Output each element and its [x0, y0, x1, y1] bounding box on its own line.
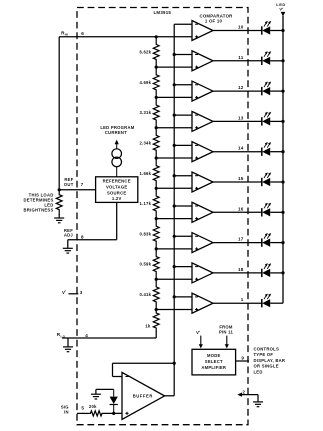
svg-text:DISPLAY, BAR: DISPLAY, BAR — [254, 358, 286, 363]
LED 3 — [262, 82, 271, 96]
node RHI pin 6 — [61, 31, 84, 37]
current source LED program — [112, 140, 122, 177]
svg-text:7: 7 — [81, 182, 84, 187]
wire signal branch to comparator 3 - input — [174, 84, 192, 86]
svg-text:0.83k: 0.83k — [139, 231, 151, 236]
pin 2 label — [242, 389, 245, 394]
comparator 6 (output pin 15) — [192, 172, 213, 192]
wire comparator 10 output to LED pin 1 — [213, 302, 262, 304]
wire buffer output — [165, 395, 175, 397]
svg-text:MODE: MODE — [207, 353, 221, 358]
wire divider bottom to RLO row — [62, 331, 156, 338]
wire comparator 9 output to LED pin 18 — [213, 272, 262, 274]
svg-text:12: 12 — [238, 85, 244, 90]
pin 10 label — [238, 25, 244, 30]
LED 5 — [262, 142, 271, 156]
resistor divider 6.62k — [139, 37, 159, 67]
svg-text:+: + — [198, 329, 200, 333]
wire tap 10 to comparator 10 + input — [156, 309, 192, 311]
wire signal branch to comparator 7 - input — [174, 205, 192, 207]
LED 6 — [262, 172, 271, 186]
wire comparator 5 output to LED pin 14 — [213, 151, 262, 153]
op-amp buffer — [122, 372, 165, 419]
wire comparator 4 output to LED pin 13 — [213, 120, 262, 122]
LED 7 — [262, 203, 271, 217]
comparator 3 (output pin 12) — [192, 81, 213, 101]
junction signal line row 9 — [173, 265, 176, 268]
wire LED 6 anode to V+ rail — [270, 181, 283, 183]
pin 11 label — [238, 55, 244, 60]
pin 15 label — [238, 176, 244, 181]
svg-text:0.41k: 0.41k — [139, 292, 151, 297]
comparator 4 (output pin 13) — [192, 111, 213, 131]
resistor divider 1.66k — [139, 158, 159, 188]
svg-text:6.62k: 6.62k — [139, 50, 151, 55]
svg-text:11: 11 — [238, 55, 244, 60]
wire signal branch to comparator 10 - input — [174, 296, 192, 298]
comparator 9 (output pin 18) — [192, 263, 213, 283]
svg-text:9: 9 — [241, 356, 244, 361]
svg-text:+: + — [282, 6, 284, 10]
LED 4 — [262, 112, 271, 126]
resistor divider 0.41k — [139, 279, 159, 309]
wire tap 9 to comparator 9 + input — [156, 278, 192, 280]
wire RHI from pin 6 to divider top and comparator 1 + input — [59, 36, 192, 38]
junction signal line row 2 — [173, 53, 176, 56]
wire tap 3 to comparator 3 + input — [156, 96, 192, 98]
resistor 1k to RLO — [145, 310, 159, 332]
junction tap 10 — [155, 308, 158, 311]
svg-text:1.2V: 1.2V — [112, 196, 122, 201]
node V+ pin 3 — [62, 289, 83, 296]
svg-text:4.69k: 4.69k — [139, 80, 151, 85]
reference voltage source box — [96, 177, 138, 203]
junction REF OUT node — [58, 188, 61, 191]
pin 16 label — [238, 206, 244, 211]
wire load to ground — [58, 214, 60, 218]
junction feedback to signal line — [173, 362, 176, 365]
svg-text:+: + — [64, 289, 66, 293]
node REF OUT pin 7 — [64, 177, 84, 187]
wire LED 1 anode to V+ rail — [270, 30, 283, 32]
wire comparator 2 output to LED pin 11 — [213, 60, 262, 62]
wire buffer feedback — [113, 363, 175, 376]
junction signal line row 10 — [173, 295, 176, 298]
pin 18 label — [238, 267, 244, 272]
LED 9 — [262, 263, 271, 277]
wire tap 6 to comparator 6 + input — [156, 187, 192, 189]
comparator 5 (output pin 14) — [192, 142, 213, 162]
svg-text:17: 17 — [238, 237, 244, 242]
junction signal line row 8 — [173, 235, 176, 238]
wire signal branch to comparator 1 - input — [174, 23, 192, 25]
wire tap 8 to comparator 8 + input — [156, 248, 192, 250]
junction tap 8 — [155, 247, 158, 250]
svg-text:BUFFER: BUFFER — [133, 394, 153, 399]
label CONTROLS TYPE OF DISPLAY BAR OR SINGLE LED — [254, 346, 286, 374]
junction tap 7 — [155, 217, 158, 220]
comparator 8 (output pin 17) — [192, 233, 213, 253]
junction tap 3 — [155, 96, 158, 99]
svg-text:1 OF 10: 1 OF 10 — [205, 19, 223, 24]
junction LED rail row 6 — [281, 180, 284, 183]
junction LED rail row 7 — [281, 211, 284, 214]
junction LED rail row 1 — [281, 29, 284, 32]
label FROM PIN 11 — [219, 325, 233, 335]
node LED V+ supply — [276, 2, 286, 17]
label V+ into mode select — [196, 329, 200, 335]
junction LED rail row 4 — [281, 120, 284, 123]
pin 14 label — [238, 146, 244, 151]
junction divider top — [155, 35, 158, 38]
resistor divider 2.34k — [139, 128, 159, 158]
arrow V+ into mode select — [199, 336, 203, 349]
junction signal line row 3 — [173, 83, 176, 86]
wire signal branch to comparator 2 - input — [174, 54, 192, 56]
svg-text:2: 2 — [242, 389, 245, 394]
junction LED rail row 9 — [281, 271, 284, 274]
junction tap 9 — [155, 278, 158, 281]
wire RLO to ground — [67, 338, 69, 347]
svg-text:PIN 11: PIN 11 — [219, 330, 233, 335]
resistor divider 1.17k — [139, 188, 159, 218]
svg-text:8: 8 — [81, 235, 84, 240]
svg-text:18: 18 — [238, 267, 244, 272]
resistor divider 0.83k — [139, 219, 159, 249]
LED 1 — [262, 21, 271, 35]
pin 1 label — [241, 297, 244, 302]
wire signal branch to comparator 9 - input — [174, 266, 192, 268]
wire reference box to REF ADJ — [68, 202, 117, 239]
wire tap 5 to comparator 5 + input — [156, 157, 192, 159]
wire LED 5 anode to V+ rail — [270, 151, 283, 153]
svg-text:3: 3 — [80, 290, 83, 295]
svg-text:4: 4 — [85, 333, 88, 338]
junction LED rail row 8 — [281, 241, 284, 244]
junction LED rail row 2 — [281, 59, 284, 62]
node RLO pin 4 — [57, 332, 88, 338]
mode select amplifier box — [192, 349, 236, 375]
wire comparator 1 output to LED pin 10 — [213, 30, 262, 32]
comparator 10 (output pin 1) — [192, 293, 213, 313]
svg-text:TYPE OF: TYPE OF — [254, 352, 274, 357]
svg-text:CURRENT: CURRENT — [105, 130, 127, 135]
svg-text:15: 15 — [238, 176, 244, 181]
junction buffer input node — [112, 412, 115, 415]
wire comparator 8 output to LED pin 17 — [213, 242, 262, 244]
junction LED rail row 5 — [281, 150, 284, 153]
svg-text:ADJ: ADJ — [64, 232, 74, 237]
wire tap 4 to comparator 4 + input — [156, 127, 192, 129]
wire V+ stub — [69, 293, 79, 295]
clamp diode — [110, 389, 118, 413]
node SIG IN pin 5 — [61, 405, 85, 415]
wire down to clamp ground — [95, 389, 97, 394]
svg-text:LM3915: LM3915 — [153, 10, 171, 15]
svg-text:10: 10 — [238, 25, 244, 30]
resistor divider 0.59k — [139, 249, 159, 279]
resistor divider 4.69k — [139, 67, 159, 97]
wire signal branch to comparator 4 - input — [174, 114, 192, 116]
pin 13 label — [238, 115, 244, 120]
wire tap 2 to comparator 2 + input — [156, 66, 192, 68]
svg-text:BRIGHTNESS: BRIGHTNESS — [24, 207, 54, 212]
comparator 2 (output pin 11) — [192, 51, 213, 71]
junction signal line row 7 — [173, 204, 176, 207]
pin 12 label — [238, 85, 244, 90]
svg-text:3.31k: 3.31k — [139, 110, 151, 115]
ground REF ADJ — [63, 248, 73, 253]
svg-text:6: 6 — [81, 31, 84, 36]
ground RLO — [63, 347, 73, 352]
svg-text:14: 14 — [238, 146, 244, 151]
wire LED 10 anode to V+ rail — [270, 302, 283, 304]
wire mode select output pin 9 — [236, 356, 249, 361]
svg-text:LED: LED — [254, 370, 263, 375]
svg-text:CONTROLS: CONTROLS — [254, 346, 280, 351]
wire signal branch to comparator 6 - input — [174, 175, 192, 177]
svg-text:16: 16 — [238, 206, 244, 211]
wire SIG IN to 20k — [77, 412, 89, 414]
svg-text:0.59k: 0.59k — [139, 262, 151, 267]
comparator 1 (output pin 10) — [192, 21, 213, 41]
wire LED 7 anode to V+ rail — [270, 211, 283, 213]
ground load — [54, 218, 64, 223]
wire LED 9 anode to V+ rail — [270, 272, 283, 274]
wire signal branch to comparator 8 - input — [174, 235, 192, 237]
arrow FROM PIN 11 into mode select — [225, 336, 229, 349]
wire LED V+ rail — [282, 16, 284, 303]
node REF ADJ pin 8 — [64, 228, 84, 240]
wire LED 2 anode to V+ rail — [270, 60, 283, 62]
svg-text:13: 13 — [238, 115, 244, 120]
label LM3915 — [153, 10, 171, 15]
svg-text:1.66k: 1.66k — [139, 171, 151, 176]
svg-text:VOLTAGE: VOLTAGE — [106, 185, 127, 190]
wire signal branch to comparator 5 - input — [174, 144, 192, 146]
ground pin 2 — [253, 402, 263, 407]
svg-text:HI: HI — [65, 33, 69, 37]
wire tap 7 to comparator 7 + input — [156, 218, 192, 220]
junction tap 5 — [155, 156, 158, 159]
svg-text:SOURCE: SOURCE — [107, 191, 126, 196]
wire LED 4 anode to V+ rail — [270, 120, 283, 122]
resistor 20k — [89, 404, 103, 416]
wire diode anode to ground — [96, 388, 114, 390]
svg-text:5: 5 — [81, 406, 84, 411]
junction LED rail row 3 — [281, 90, 284, 93]
label THIS LOAD DETERMINES LED BRIGHTNESS — [24, 192, 54, 212]
svg-text:1: 1 — [241, 297, 244, 302]
svg-text:AMPLIFIER: AMPLIFIER — [201, 365, 226, 370]
wire pin 2 to ground — [237, 393, 258, 402]
LED 8 — [262, 233, 271, 247]
wire signal line from buffer output to comparator - inputs — [173, 24, 175, 396]
svg-text:1.17k: 1.17k — [139, 201, 151, 206]
resistor divider 3.31k — [139, 97, 159, 127]
svg-text:SELECT: SELECT — [205, 359, 223, 364]
wire REF ADJ to ground — [67, 240, 69, 249]
junction signal line row 4 — [173, 114, 176, 117]
junction tap 6 — [155, 187, 158, 190]
svg-text:IN: IN — [64, 409, 69, 414]
resistor load (LED brightness) — [56, 190, 62, 215]
wire 20k to buffer + input — [103, 412, 122, 414]
pin 17 label — [238, 237, 244, 242]
label LED PROGRAM CURRENT — [100, 125, 134, 135]
wire comparator 7 output to LED pin 16 — [213, 211, 262, 213]
wire comparator 3 output to LED pin 12 — [213, 90, 262, 92]
wire LED 8 anode to V+ rail — [270, 242, 283, 244]
comparator 7 (output pin 16) — [192, 202, 213, 222]
wire REF OUT to reference box — [59, 189, 95, 191]
LED 2 — [262, 51, 271, 65]
svg-text:2.34k: 2.34k — [139, 140, 151, 145]
LED 10 — [262, 294, 271, 308]
wire LED 3 anode to V+ rail — [270, 90, 283, 92]
ground clamp diode — [91, 394, 101, 399]
svg-text:OR SINGLE: OR SINGLE — [254, 364, 279, 369]
svg-text:20k: 20k — [89, 404, 97, 409]
wire RHI node down to REF OUT node — [58, 37, 60, 190]
svg-text:OUT: OUT — [64, 182, 74, 187]
svg-text:LO: LO — [61, 334, 66, 338]
svg-text:REFERENCE: REFERENCE — [103, 179, 131, 184]
junction signal line row 6 — [173, 174, 176, 177]
svg-text:1k: 1k — [145, 323, 151, 328]
wire comparator 6 output to LED pin 15 — [213, 181, 262, 183]
IC boundary dashed box LM3915 — [77, 8, 248, 425]
junction tap 2 — [155, 66, 158, 69]
label COMPARATOR 1 OF 10 — [199, 13, 233, 23]
junction signal line row 5 — [173, 144, 176, 147]
junction tap 4 — [155, 126, 158, 129]
